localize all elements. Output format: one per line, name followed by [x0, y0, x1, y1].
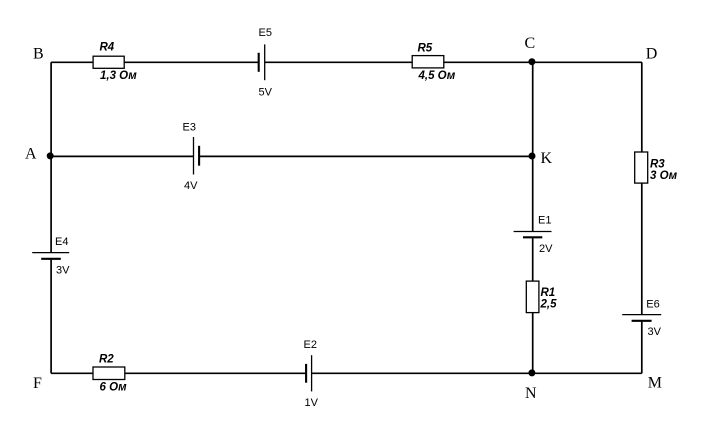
- node C: [528, 58, 535, 65]
- svg-text:5V: 5V: [259, 87, 273, 99]
- wire B to R4: [51, 61, 93, 63]
- svg-text:R5: R5: [418, 43, 433, 55]
- resistor R4: [93, 56, 124, 68]
- resistor R1: [526, 281, 539, 313]
- wire A to E3: [51, 155, 193, 157]
- svg-text:E6: E6: [646, 299, 659, 311]
- node A: [47, 152, 54, 159]
- wire E5 to R5: [265, 61, 413, 63]
- battery E6: [622, 315, 661, 321]
- svg-text:2,5: 2,5: [540, 299, 558, 311]
- svg-text:F: F: [33, 375, 42, 392]
- svg-text:R1: R1: [541, 287, 556, 299]
- svg-text:E1: E1: [538, 215, 551, 227]
- wire K to E1: [532, 156, 534, 231]
- battery E3: [194, 137, 200, 175]
- svg-text:R4: R4: [100, 42, 115, 54]
- svg-text:E2: E2: [304, 339, 317, 351]
- resistor R3: [635, 152, 648, 183]
- wire E1 to R1: [532, 237, 534, 281]
- svg-text:2V: 2V: [539, 243, 553, 255]
- svg-text:E3: E3: [183, 122, 196, 134]
- wire E4 to F: [50, 259, 52, 374]
- wire R2 to E2: [125, 372, 306, 374]
- battery E4: [32, 253, 69, 259]
- svg-text:M: M: [648, 374, 662, 391]
- wire R4 to E5: [124, 61, 259, 63]
- resistor R5: [412, 56, 444, 68]
- svg-text:E4: E4: [55, 236, 68, 248]
- node K: [529, 153, 536, 160]
- svg-text:1,3 Ом: 1,3 Ом: [100, 70, 137, 82]
- wire F to R2: [51, 372, 93, 374]
- wire E3 to K: [199, 155, 533, 157]
- svg-text:4V: 4V: [184, 180, 198, 192]
- svg-text:A: A: [25, 146, 37, 163]
- wire D to R3: [641, 62, 643, 152]
- svg-text:C: C: [525, 35, 536, 52]
- battery E1: [514, 232, 552, 238]
- battery E2: [306, 355, 312, 391]
- svg-text:4,5 Ом: 4,5 Ом: [418, 70, 456, 82]
- wire R1 to N: [532, 313, 534, 374]
- svg-text:6 Ом: 6 Ом: [100, 382, 128, 394]
- wire C to K: [532, 62, 534, 156]
- svg-text:D: D: [646, 46, 658, 63]
- svg-text:B: B: [33, 46, 44, 63]
- wire C to D: [533, 61, 642, 63]
- svg-text:3 Ом: 3 Ом: [650, 170, 678, 182]
- svg-text:3V: 3V: [56, 265, 70, 277]
- svg-text:N: N: [525, 385, 537, 402]
- svg-text:3V: 3V: [648, 326, 662, 338]
- wire N to M: [533, 372, 642, 374]
- wire R3 to E6: [641, 183, 643, 315]
- svg-text:R2: R2: [99, 354, 114, 366]
- svg-text:1V: 1V: [305, 397, 319, 409]
- wire E2 to N: [312, 372, 533, 374]
- wire B down to E4: [50, 62, 52, 252]
- svg-text:R3: R3: [650, 159, 665, 171]
- svg-text:K: K: [541, 150, 553, 167]
- svg-text:E5: E5: [259, 27, 272, 39]
- battery E5: [259, 44, 265, 80]
- wire E6 to M: [641, 321, 643, 374]
- wire R5 to C: [444, 61, 533, 63]
- node N: [528, 369, 535, 376]
- resistor R2: [93, 367, 125, 380]
